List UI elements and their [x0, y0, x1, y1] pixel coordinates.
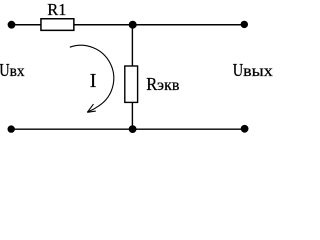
wire: top rail, R1 right lead through node A to output terminal: [74, 24, 245, 26]
svg-text:Uвх: Uвх: [0, 60, 25, 80]
wire: bottom rail: [11, 128, 244, 130]
node A: top junction dot: [129, 21, 137, 29]
node: bottom-left terminal dot: [8, 125, 15, 132]
node: output terminal dot (top-right): [241, 21, 248, 28]
svg-text:I: I: [90, 70, 97, 92]
node: bottom-right terminal dot: [241, 125, 249, 133]
current arrow head: [87, 104, 96, 112]
wire: top rail, input terminal to R1 left lead: [12, 24, 42, 26]
resistor Rэкв: [125, 66, 138, 102]
svg-text:Uвых: Uвых: [233, 60, 273, 80]
svg-text:R1: R1: [47, 0, 66, 19]
wire: vertical from Rэкв pin 2 down to bottom junction: [131, 103, 133, 129]
current direction arrow: clockwise arc around node A branch: [70, 45, 114, 112]
node: bottom junction dot: [129, 125, 137, 133]
svg-text:Rэкв: Rэкв: [146, 74, 180, 94]
node: input terminal dot (top-left): [8, 21, 16, 29]
resistor R1: [41, 19, 74, 31]
wire: vertical from node A down to Rэкв pin 1: [131, 25, 133, 66]
